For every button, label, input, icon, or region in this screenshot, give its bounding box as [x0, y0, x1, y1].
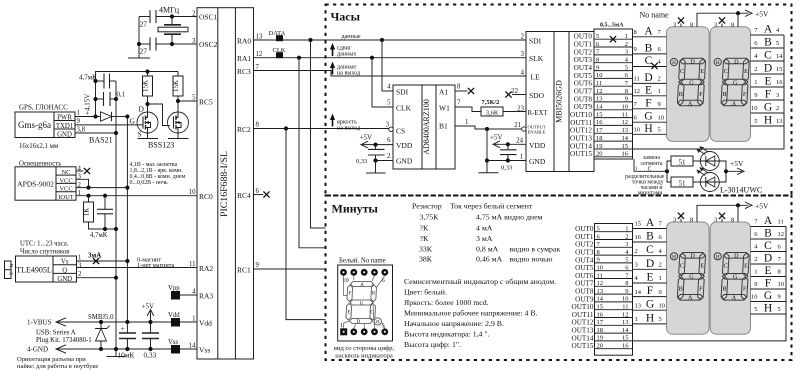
ground (M2): [168, 138, 189, 140]
svg-text:18: 18: [596, 135, 603, 142]
wire AD8400 GND: [376, 160, 394, 162]
node B1/OE ground branch: [485, 127, 489, 131]
wire segment E (display4): [751, 276, 787, 278]
svg-text:5: 5: [596, 33, 599, 40]
svg-text:9: 9: [778, 294, 781, 301]
node M1 drain branch: [145, 102, 149, 106]
svg-text:OUT5: OUT5: [575, 264, 594, 272]
svg-text:10: 10: [622, 296, 629, 303]
wire cable 13 (minutes): [595, 324, 633, 326]
wire switched rail vertical: [126, 117, 128, 323]
svg-text:VDD: VDD: [529, 141, 546, 150]
svg-text:21: 21: [514, 122, 521, 129]
svg-text:11: 11: [622, 111, 628, 118]
svg-text:GND: GND: [57, 131, 72, 138]
svg-text:5: 5: [387, 100, 391, 107]
pin 3 display4: [721, 219, 723, 222]
wire segment C (display1): [633, 66, 667, 68]
svg-text:2: 2: [658, 76, 661, 83]
svg-text:OUT15: OUT15: [572, 342, 594, 350]
svg-text:5: 5: [776, 40, 779, 47]
svg-text:9: 9: [634, 46, 637, 53]
svg-text:12: 12: [634, 88, 641, 95]
svg-text:1-VBUS: 1-VBUS: [27, 319, 52, 327]
node crystal bottom: [170, 42, 174, 46]
wire cable 2 (minutes): [595, 239, 633, 241]
svg-text:TLE4905L: TLE4905L: [16, 266, 52, 275]
svg-text:C: C: [764, 50, 772, 62]
svg-text:14: 14: [776, 53, 783, 60]
node 10мК bottom: [125, 347, 129, 351]
svg-text:GND: GND: [396, 157, 413, 166]
svg-text:0,33: 0,33: [144, 351, 157, 360]
wire NC stub: [76, 170, 84, 172]
svg-text:15K: 15K: [172, 80, 180, 92]
wire VBUS: [56, 321, 197, 323]
node filter bottom: [103, 227, 107, 231]
svg-text:1: 1: [625, 33, 628, 40]
wire cable 10: [594, 109, 633, 111]
svg-text:12: 12: [622, 119, 629, 126]
svg-text:S: S: [138, 130, 142, 139]
svg-text:4: 4: [192, 289, 196, 296]
svg-text:1-нет магнита: 1-нет магнита: [137, 262, 175, 269]
svg-text:VDD: VDD: [396, 141, 413, 150]
svg-text:9: 9: [659, 289, 662, 296]
svg-text:GND: GND: [529, 157, 546, 166]
svg-text:8: 8: [690, 217, 693, 224]
resistor 15K (R2 pullup): [172, 72, 183, 113]
svg-text:5: 5: [754, 306, 757, 313]
wire cable 11 (minutes): [595, 309, 633, 311]
wire cable 14 (minutes): [595, 332, 633, 334]
ground (USB): [115, 349, 117, 357]
svg-text:С: С: [648, 167, 652, 173]
wire segment D (display4): [751, 263, 787, 265]
arrow данные на выход: [332, 67, 334, 75]
OE inversion circle: [522, 127, 526, 131]
svg-text:5: 5: [597, 226, 600, 233]
svg-text:H: H: [764, 303, 772, 315]
svg-text:UTC: 1...23 часа.: UTC: 1...23 часа.: [20, 241, 69, 248]
svg-text:H: H: [376, 321, 380, 326]
svg-text:Белый. No name: Белый. No name: [339, 258, 386, 265]
svg-text:15: 15: [622, 335, 629, 342]
wire segment D (display1): [633, 82, 667, 84]
svg-text:2: 2: [659, 262, 662, 269]
svg-text:E: E: [764, 76, 771, 88]
wire cable 5: [594, 70, 633, 72]
svg-text:10: 10: [622, 104, 629, 111]
svg-text:10мК: 10мК: [118, 351, 135, 360]
+5V up arrow: [142, 303, 155, 323]
magnet symbol N/S: [5, 261, 14, 279]
svg-text:A: A: [764, 24, 773, 36]
pin 8 display4: [737, 205, 739, 222]
arrow сдвиг: [332, 48, 334, 56]
svg-text:OUT4: OUT4: [575, 256, 594, 264]
wire cable 7: [594, 85, 633, 87]
display HL2 (hours units): [710, 27, 750, 142]
svg-text:9: 9: [77, 118, 81, 125]
svg-text:8: 8: [690, 21, 693, 28]
svg-text:данные: данные: [342, 34, 361, 40]
wire cable 8 (minutes): [595, 285, 633, 287]
svg-text:1: 1: [754, 269, 757, 276]
svg-text:E: E: [646, 272, 653, 284]
svg-text:0,33: 0,33: [501, 165, 512, 172]
svg-text:D: D: [357, 320, 361, 325]
wire 3,6K to R-EXT: [503, 111, 526, 113]
wire cable 1 (minutes): [595, 231, 633, 233]
svg-text:OUT9: OUT9: [575, 295, 594, 303]
svg-text:13: 13: [776, 118, 783, 125]
node LED right: [724, 169, 728, 173]
wire cable 4 (minutes): [595, 254, 633, 256]
wire W1 to 3,6K: [455, 107, 481, 112]
svg-text:16: 16: [635, 234, 642, 241]
node zener top: [99, 320, 103, 324]
svg-text:минутами: минутами: [638, 190, 663, 196]
svg-text:15: 15: [776, 66, 783, 73]
svg-text:14: 14: [597, 296, 604, 303]
svg-text:OUT1: OUT1: [574, 40, 593, 48]
wire Vpp to RA3: [180, 294, 197, 296]
wire segment A (display4): [751, 226, 787, 228]
svg-text:Число спутников: Число спутников: [20, 249, 69, 256]
svg-text:RA2: RA2: [199, 264, 213, 273]
svg-text:USB: Series A: USB: Series A: [36, 330, 76, 337]
svg-text:12: 12: [622, 311, 629, 318]
X mark segment C cut: [651, 63, 657, 69]
node DATA to minutes: [308, 38, 312, 42]
node TLE GND: [114, 276, 118, 280]
svg-text:10: 10: [189, 189, 196, 196]
node cap1 left: [93, 79, 97, 83]
svg-text:9: 9: [625, 288, 628, 295]
svg-text:RC0: RC0: [199, 192, 213, 201]
wire M1 source: [147, 133, 149, 139]
cable ladder (minutes): [595, 224, 633, 356]
svg-text:2: 2: [776, 105, 779, 112]
svg-text:38К: 38К: [419, 255, 433, 264]
svg-text:1: 1: [192, 316, 195, 323]
svg-text:видно ночью: видно ночью: [510, 255, 553, 264]
svg-text:Gms-g6a: Gms-g6a: [18, 120, 51, 130]
svg-text:H: H: [764, 115, 772, 127]
svg-text:5: 5: [778, 306, 781, 313]
+5V arrow (hours displays): [745, 10, 752, 17]
svg-text:1: 1: [520, 154, 523, 161]
svg-text:OUT6: OUT6: [574, 80, 593, 88]
diode BAS21: [89, 112, 113, 145]
svg-text:8: 8: [731, 21, 734, 28]
wire cable 16 (minutes): [595, 348, 633, 350]
svg-text:15: 15: [596, 111, 603, 118]
svg-text:A: A: [764, 215, 773, 227]
node VDD cap: [373, 143, 377, 147]
wire MBI1 GND: [487, 160, 526, 162]
wire DATA RA0 to SDI: [254, 39, 527, 41]
svg-text:OUT5: OUT5: [574, 72, 593, 80]
svg-text:6: 6: [256, 188, 260, 195]
node GND rail top: [114, 131, 118, 135]
svg-text:вид со стороны цифр,: вид со стороны цифр,: [334, 345, 395, 352]
X mark current 3мА: [93, 258, 99, 264]
svg-text:OUT8: OUT8: [575, 288, 594, 296]
svg-text:Часы: Часы: [331, 10, 361, 24]
wire segment A (display2): [751, 34, 785, 36]
svg-text:10: 10: [778, 281, 785, 288]
svg-text:3,8: 3,8: [77, 127, 86, 134]
svg-text:9: 9: [596, 64, 599, 71]
wire caps right to GND rail: [115, 81, 117, 133]
+5V arrow (LEDs): [726, 168, 744, 175]
svg-text:OUT11: OUT11: [570, 119, 592, 127]
wire A1 stub: [455, 90, 468, 92]
svg-text:H: H: [646, 312, 654, 324]
svg-text:4: 4: [387, 84, 391, 91]
svg-text:сегмента: сегмента: [640, 161, 662, 167]
svg-text:на выход: на выход: [337, 71, 360, 77]
svg-text:B: B: [646, 231, 654, 243]
GPS module Gms-g6a: [15, 104, 75, 151]
wire Q to RA2: [77, 267, 198, 269]
svg-text:11: 11: [189, 261, 196, 268]
svg-text:Vss: Vss: [168, 339, 179, 346]
LED VD1: [697, 147, 719, 171]
ground (MBI1): [479, 172, 499, 174]
svg-text:OUT8: OUT8: [574, 95, 593, 103]
svg-text:13: 13: [596, 96, 603, 103]
wire OSC2: [156, 43, 197, 45]
svg-text:OUT14: OUT14: [570, 142, 592, 150]
resistor 3,6К: [481, 99, 503, 117]
svg-text:2: 2: [625, 233, 628, 240]
svg-text:0,33: 0,33: [356, 158, 367, 165]
svg-text:51: 51: [679, 179, 687, 187]
capacitor 0,33 (USB): [142, 322, 159, 360]
digital potentiometer AD8400ARZ100: [393, 85, 455, 169]
X mark A1: [468, 88, 474, 94]
svg-text:3: 3: [673, 21, 676, 28]
svg-text:SLK: SLK: [529, 54, 544, 63]
svg-text:ENABLE: ENABLE: [528, 130, 546, 135]
svg-text:RC2: RC2: [237, 125, 251, 134]
svg-text:+5V: +5V: [142, 303, 155, 311]
svg-text:11: 11: [634, 76, 640, 83]
svg-text:4,7мК: 4,7мК: [90, 232, 108, 239]
wire cable 10 (minutes): [595, 301, 633, 303]
transistor BSS123 M2: [168, 112, 189, 133]
svg-text:CLK: CLK: [396, 104, 412, 113]
svg-text:Plug Kit. 1734080-1: Plug Kit. 1734080-1: [36, 337, 92, 344]
wire cable 12 (minutes): [595, 317, 633, 319]
svg-text:OUT0: OUT0: [574, 33, 593, 41]
svg-text:2: 2: [521, 34, 525, 41]
wire segment F (display4): [751, 288, 787, 290]
svg-text:+4,15V: +4,15V: [84, 94, 92, 115]
crystal Y1 4МГц: [158, 6, 188, 45]
svg-text:GND: GND: [57, 276, 72, 283]
svg-text:16x16x2,1 мм: 16x16x2,1 мм: [19, 143, 59, 150]
svg-text:4МГц: 4МГц: [159, 6, 180, 15]
wire +4.15V riser: [96, 72, 179, 117]
svg-text:E: E: [348, 311, 351, 316]
svg-text:3: 3: [386, 122, 390, 129]
node PWR/+4.15V: [93, 114, 97, 118]
svg-text:Яркость: более 1000 mcd.: Яркость: более 1000 mcd.: [404, 298, 489, 307]
svg-text:22: 22: [511, 88, 518, 95]
svg-text:OUT14: OUT14: [572, 334, 594, 342]
resistor 51 (upper): [667, 161, 671, 171]
svg-text:Q: Q: [62, 267, 67, 274]
svg-text:9: 9: [754, 92, 757, 99]
node diode output: [125, 114, 129, 118]
wire caps to ground: [138, 17, 140, 59]
svg-text:10: 10: [659, 302, 666, 309]
svg-text:OUT6: OUT6: [575, 272, 594, 280]
node OE gnd line: [485, 158, 489, 162]
wire cable 12: [594, 124, 633, 126]
svg-text:0,5...5мА: 0,5...5мА: [600, 23, 624, 29]
svg-text:APDS-9002: APDS-9002: [17, 180, 54, 189]
test pad Vdd: [171, 318, 180, 327]
svg-text:OUT2: OUT2: [574, 48, 593, 56]
svg-text:Ориентация разъема при: Ориентация разъема при: [17, 356, 86, 363]
svg-text:3: 3: [714, 21, 717, 28]
wire cable 11: [594, 117, 633, 119]
svg-text:Высота цифр: 1".: Высота цифр: 1".: [404, 340, 461, 349]
svg-text:D: D: [646, 258, 654, 270]
node VCC to rail: [125, 186, 129, 190]
svg-text:Vss: Vss: [199, 346, 210, 355]
svg-text:1: 1: [635, 316, 638, 323]
svg-text:3: 3: [625, 241, 628, 248]
wire segment G (display4): [751, 301, 787, 303]
svg-text:0...0,02В - ночь: 0...0,02В - ночь: [130, 180, 168, 186]
svg-text:G: G: [130, 117, 136, 126]
node rail R1: [145, 69, 149, 73]
svg-text:GPS, ГЛОНАСС: GPS, ГЛОНАСС: [19, 104, 68, 112]
wire bus under displays (hours): [633, 35, 785, 149]
hall sensor TLE4905L: [16, 256, 77, 283]
svg-text:C: C: [645, 55, 653, 67]
svg-text:LE: LE: [531, 73, 541, 82]
node IOUT R: [86, 194, 90, 198]
wire SDO stub: [512, 94, 526, 96]
svg-text:16: 16: [622, 343, 629, 350]
svg-text:+5V: +5V: [730, 159, 744, 168]
svg-text:Цвет: белый.: Цвет: белый.: [404, 288, 447, 297]
svg-text:A: A: [644, 25, 653, 37]
svg-text:MBI5026GD: MBI5026GD: [555, 80, 564, 123]
svg-text:IOUT: IOUT: [58, 194, 74, 201]
svg-text:4 мА: 4 мА: [476, 224, 493, 233]
wire TLE GND: [77, 277, 117, 279]
svg-text:1: 1: [77, 110, 80, 117]
svg-text:1К: 1К: [83, 208, 91, 217]
node MBI1 VDD cap: [506, 142, 510, 146]
svg-text:+5V: +5V: [360, 134, 373, 142]
indicator pinout drawing: [338, 265, 393, 341]
svg-text:G: G: [646, 299, 654, 311]
svg-text:Семисегментный индикатор с общ: Семисегментный индикатор с общим анодом.: [404, 277, 556, 286]
svg-text:13: 13: [622, 127, 629, 134]
svg-text:RC1: RC1: [237, 266, 251, 275]
svg-text:7: 7: [256, 64, 260, 71]
wire cable 9 (minutes): [595, 293, 633, 295]
svg-text:E: E: [764, 265, 771, 277]
svg-text:F: F: [645, 97, 651, 109]
svg-text:15: 15: [635, 221, 642, 228]
node crystal top: [170, 14, 174, 18]
svg-text:D: D: [764, 253, 772, 265]
capacitor 10мК electrolytic: [118, 322, 137, 360]
+5V arrow (minutes displays): [745, 202, 752, 209]
svg-text:23: 23: [517, 106, 524, 113]
node gnd rail 229: [114, 227, 118, 231]
wire segment H (display4): [751, 313, 787, 315]
wire IOUT to RC0: [76, 195, 197, 197]
svg-text:Резистор: Резистор: [412, 202, 442, 211]
wire M1 drain to gate M2: [148, 104, 170, 126]
svg-text:C: C: [646, 244, 654, 256]
wire cable 3 (minutes): [595, 246, 633, 248]
note light levels: [130, 162, 186, 186]
dashed box Часы: [326, 5, 792, 196]
svg-text:3: 3: [673, 217, 676, 224]
svg-text:8: 8: [597, 249, 600, 256]
svg-text:OUT10: OUT10: [570, 111, 592, 119]
svg-text:E: E: [645, 84, 652, 96]
X mark NC: [84, 168, 90, 174]
svg-text:OUT12: OUT12: [570, 127, 592, 135]
svg-text:4: 4: [521, 70, 525, 77]
cable ladder (hours): [594, 29, 633, 159]
wire segment C (display3): [633, 255, 667, 257]
capacitor 0,33 (MBI1): [500, 144, 517, 171]
svg-text:RC4: RC4: [237, 191, 251, 200]
svg-text:G: G: [644, 111, 652, 123]
svg-text:OSC2: OSC2: [199, 40, 218, 49]
node GND cap: [373, 158, 377, 162]
svg-text:8: 8: [778, 269, 781, 276]
wire RC1 to minutes LE: [254, 268, 326, 270]
svg-text:B: B: [764, 37, 772, 49]
svg-text:1: 1: [625, 226, 628, 233]
svg-text:F: F: [647, 285, 653, 297]
display HL1 (hours tens): [667, 27, 710, 142]
wire RC3 to LE: [254, 71, 527, 77]
arrow VBUS off-page: [56, 318, 66, 326]
resistor 51 (lower): [667, 171, 671, 182]
svg-text:3: 3: [776, 92, 779, 99]
node RC5 junction: [176, 99, 180, 103]
svg-text:OUT11: OUT11: [572, 311, 594, 319]
svg-text:6: 6: [387, 137, 391, 144]
svg-text:CS: CS: [396, 127, 405, 136]
svg-text:2: 2: [635, 248, 638, 255]
wire segment E (display3): [633, 282, 667, 284]
wire GND: [56, 348, 197, 350]
resistor 15K (R1 pullup): [142, 72, 153, 113]
svg-text:0,1: 0,1: [117, 92, 126, 99]
svg-text:OUT2: OUT2: [575, 241, 594, 249]
zener SMBJ5.0: [88, 314, 114, 349]
wire cable 6: [594, 77, 633, 79]
wire RC2 to CS: [254, 128, 389, 130]
